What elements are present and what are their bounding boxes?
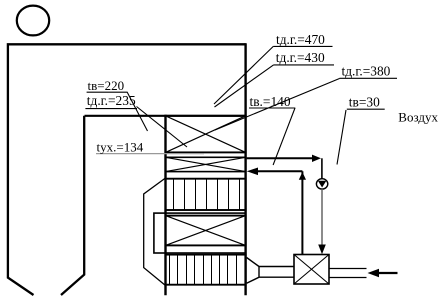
label t d.g.=430 — [274, 50, 335, 65]
superheater box 2 (flat X-crossed) — [166, 157, 246, 171]
label t d.g.=380 — [340, 64, 398, 79]
svg-text:tв=30: tв=30 — [349, 94, 380, 109]
leader line t d.g.=380 — [215, 79, 340, 131]
svg-text:tух.=134: tух.=134 — [97, 140, 144, 155]
svg-text:tд.г.=235: tд.г.=235 — [87, 93, 136, 108]
label tv=30 — [347, 94, 385, 109]
air inlet arrow (Воздух) — [368, 269, 398, 277]
superheater box 1 (X-crossed) — [166, 116, 246, 153]
furnace inner right wall with hopper right slope — [61, 116, 84, 295]
label tv=220 — [87, 78, 128, 93]
damper (circle with down arrow) — [316, 179, 327, 189]
economizer casing rectangle — [154, 213, 246, 253]
leader line tv=30 — [337, 110, 346, 165]
label tv.=140 — [249, 94, 295, 109]
svg-text:tд.г.=430: tд.г.=430 — [276, 50, 325, 65]
label t d.g.=235 — [85, 93, 137, 108]
furnace exit horizontal line — [85, 115, 247, 117]
hot air line to damper: horizontal with right arrowhead — [247, 155, 321, 162]
vertical line from damper down to air heater box with down arrowhead — [318, 189, 326, 254]
leader line t uh=134 (gray horizontal) — [96, 153, 204, 155]
vertical line from corner to damper circle — [321, 158, 323, 178]
svg-text:tв.=140: tв.=140 — [250, 94, 291, 109]
cold air return line: left arrowhead into shaft — [247, 168, 303, 176]
svg-text:tд.г.=470: tд.г.=470 — [276, 32, 325, 47]
leader line t d.g.=470 — [214, 46, 273, 104]
air heater / fan box (X-crossed) — [294, 255, 329, 285]
svg-text:tв=220: tв=220 — [88, 78, 125, 93]
leader line t d.g.=430 — [215, 65, 274, 107]
leader line t d.g.=235 — [137, 107, 188, 148]
svg-text:tд.г.=380: tд.г.=380 — [342, 64, 391, 79]
air heater tube bundle B (hatched) — [166, 255, 246, 285]
svg-text:Воздух: Воздух — [398, 110, 438, 125]
leader line tv=140 — [273, 108, 295, 165]
boiler drum circle — [17, 6, 49, 36]
leader line tv=220 — [127, 92, 147, 131]
convective shaft left wall — [164, 115, 166, 295]
economizer box (X-crossed) — [166, 216, 246, 246]
convective shaft right wall — [244, 43, 246, 295]
label t d.g.=470 — [273, 32, 332, 47]
furnace outline: top edge, left wall, hopper left slope — [8, 44, 246, 295]
flue outlet duct transition — [247, 258, 294, 284]
vertical riser from air heater box with up arrowhead — [299, 171, 306, 254]
air inlet duct right — [329, 269, 367, 278]
octagonal casing left side — [144, 178, 166, 286]
economizer tube bundle A (hatched) — [166, 179, 246, 210]
